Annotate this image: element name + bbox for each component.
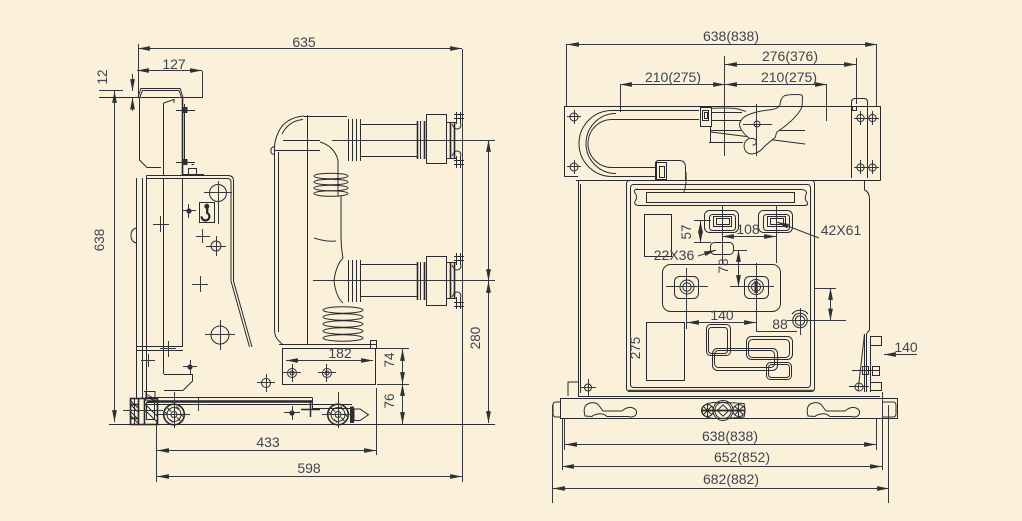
lower bushing bell <box>334 258 343 303</box>
lower bushing center line <box>313 280 495 282</box>
275 window <box>628 323 685 381</box>
svg-text:108: 108 <box>736 221 760 237</box>
spigot cone <box>350 407 369 424</box>
terminal bolts <box>283 364 336 382</box>
lower tube fitting <box>656 161 687 194</box>
dim 88 <box>814 288 836 321</box>
dim 652(852) <box>562 392 883 470</box>
dim 12 <box>95 69 133 111</box>
svg-text:210(275): 210(275) <box>645 69 701 85</box>
cross marker B <box>192 276 208 292</box>
right knob <box>759 205 793 263</box>
bolt on column lower <box>176 159 195 165</box>
small circle with cross <box>196 229 226 256</box>
svg-text:182: 182 <box>328 345 352 361</box>
dim 57 <box>679 221 711 243</box>
interlock rect R1 <box>707 325 731 356</box>
lower bushing <box>349 257 458 306</box>
svg-text:638: 638 <box>92 229 107 252</box>
linkage lines <box>709 127 805 144</box>
cross marker A <box>153 216 169 232</box>
left boss <box>666 268 708 329</box>
ear lug on left edge <box>131 228 137 243</box>
left plate lines <box>136 341 183 357</box>
left knob <box>694 205 739 263</box>
88 bolt <box>772 308 846 335</box>
upper bushing screws <box>452 112 464 168</box>
svg-text:652(852): 652(852) <box>714 449 770 465</box>
right earth plate <box>852 99 868 179</box>
mechanism box <box>131 176 252 399</box>
pole housing <box>271 115 347 345</box>
U tube busbar <box>579 111 699 177</box>
link line <box>757 323 798 332</box>
svg-text:140: 140 <box>894 339 918 355</box>
center line <box>724 56 726 156</box>
svg-text:127: 127 <box>162 56 186 72</box>
svg-text:275: 275 <box>628 337 643 360</box>
svg-text:12: 12 <box>95 69 110 84</box>
left label window <box>645 215 672 257</box>
dim 433 <box>157 388 377 482</box>
svg-text:76: 76 <box>382 393 397 408</box>
dim 682(882) <box>553 405 890 503</box>
cross marker rail <box>192 397 206 411</box>
dim 74 <box>377 349 409 385</box>
22X36 leader <box>654 247 716 263</box>
svg-text:88: 88 <box>772 316 788 332</box>
dim 635 top <box>138 34 462 97</box>
carriage rail <box>144 392 352 410</box>
interlock rect R4 <box>767 363 792 380</box>
frame bolts left <box>567 110 581 174</box>
interlock rect R3 <box>747 337 793 360</box>
svg-text:280: 280 <box>468 327 483 350</box>
lower spring stack <box>323 307 363 341</box>
interlock rect R2 <box>713 349 778 371</box>
dim 210(275) left <box>620 69 725 112</box>
22X36 slot <box>711 243 734 255</box>
upper spring stack <box>314 173 348 196</box>
lifting hole circle <box>204 181 232 224</box>
svg-text:210(275): 210(275) <box>761 69 817 85</box>
bolt dot <box>182 204 196 218</box>
mechanism plate <box>663 265 781 312</box>
top plate <box>99 88 203 98</box>
column (pole support upright) <box>140 98 185 175</box>
base bar <box>553 399 898 420</box>
dim 140 right leader <box>884 339 918 355</box>
svg-text:682(882): 682(882) <box>703 471 759 487</box>
dim 76 <box>382 384 403 424</box>
dim 140 bosses <box>687 307 756 323</box>
nameplate slot <box>634 189 807 206</box>
dim 127 <box>137 56 203 97</box>
cross marker C <box>141 354 155 367</box>
svg-text:598: 598 <box>297 460 321 476</box>
dim 276(376) <box>725 48 857 104</box>
notch bracket <box>164 375 193 391</box>
svg-text:42X61: 42X61 <box>821 222 862 238</box>
ground line <box>109 424 495 426</box>
dim 638(838) top <box>567 28 878 106</box>
right boss <box>730 263 774 323</box>
svg-text:635: 635 <box>292 34 316 50</box>
pawl pivot <box>743 104 772 156</box>
bottom-left foot <box>568 379 596 396</box>
hook plate <box>200 203 215 223</box>
dim 638(838) bottom <box>565 419 877 450</box>
top tube clamp <box>701 108 747 127</box>
frame bolts right <box>854 111 879 174</box>
svg-text:638(838): 638(838) <box>702 428 758 444</box>
left handle <box>584 403 636 417</box>
svg-text:276(376): 276(376) <box>762 48 818 64</box>
pawl latch <box>739 95 802 154</box>
bolt dot lower <box>183 360 197 374</box>
lower bushing screws <box>452 253 464 309</box>
interlock block <box>123 399 163 426</box>
front wheel <box>158 392 190 428</box>
svg-text:433: 433 <box>256 434 280 450</box>
svg-text:140: 140 <box>710 307 734 323</box>
upper bushing center line <box>332 140 495 142</box>
upper bushing <box>349 115 458 164</box>
right side tabs <box>849 337 882 392</box>
42X61 leader <box>777 222 861 238</box>
dim 108 <box>722 221 776 237</box>
dim 182 <box>286 345 373 361</box>
svg-text:78: 78 <box>716 258 731 273</box>
rear wheel <box>322 392 354 428</box>
frame line restroke <box>758 106 820 108</box>
svg-text:57: 57 <box>679 224 694 239</box>
svg-text:74: 74 <box>382 352 397 368</box>
main body <box>578 181 880 397</box>
small bracket at body top <box>183 165 204 175</box>
small crosshair circle <box>257 374 275 392</box>
dim 210(275) right <box>725 69 827 121</box>
dim 598 <box>157 49 463 482</box>
bolt on rail <box>284 402 320 420</box>
front door <box>627 181 815 392</box>
dim 78 <box>716 250 747 287</box>
svg-text:638(838): 638(838) <box>703 28 759 44</box>
dim 280 <box>468 140 489 423</box>
svg-text:22X36: 22X36 <box>654 247 695 263</box>
terminal box <box>279 341 377 385</box>
dim 638 vertical <box>92 91 115 422</box>
bolt on column upper <box>176 107 195 113</box>
lower hole circle <box>205 320 235 350</box>
right handle <box>807 403 859 417</box>
top frame <box>564 107 881 181</box>
center interlock roller <box>701 401 745 421</box>
